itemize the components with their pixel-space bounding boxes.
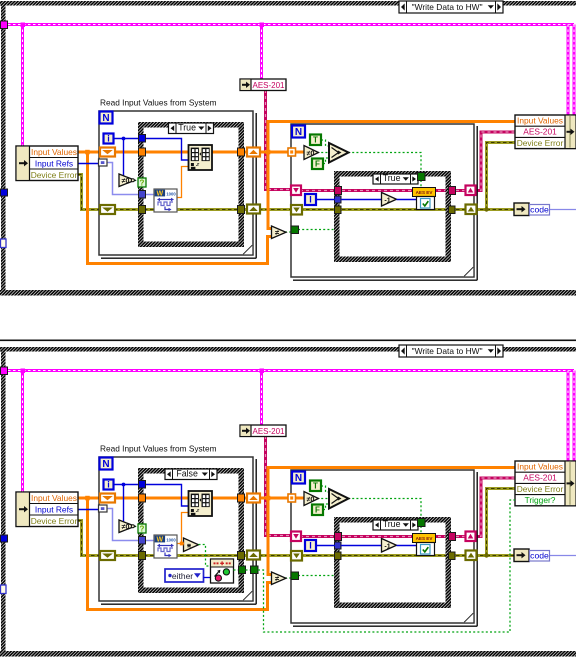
- auto-index tunnel Input Refs: [99, 159, 108, 166]
- loop tunnel olive right: [466, 205, 477, 215]
- svg-text:Read Input Values from System: Read Input Values from System: [100, 98, 217, 108]
- case tunnel blue left: [335, 542, 342, 549]
- svg-text:Device Error: Device Error: [517, 138, 564, 148]
- blue wire case interior to replace-array index input: [144, 485, 189, 507]
- magenta wire junction A: [21, 23, 26, 28]
- svg-text:I: I: [309, 195, 312, 205]
- case tunnel blue (refnum): [139, 191, 146, 199]
- orange array wire down and under left loop: [88, 152, 273, 264]
- case label True (right loop): [373, 520, 418, 530]
- case tunnel green (False case): [239, 566, 246, 574]
- green boolean wire not-equal to right loop tunnel: [285, 577, 292, 579]
- green boolean wire tunnel to AES EV subVI: [420, 526, 422, 534]
- orange wire junction at unbundle: [85, 150, 90, 155]
- shift register olive (right loop): [291, 551, 302, 561]
- not-equal-zero comparator (left loop): [119, 520, 135, 533]
- crimson wire through right loop / inner case: [300, 189, 466, 192]
- crimson VISA wire AES-201 local to shift register: [266, 90, 293, 190]
- loop tunnel right olive: [247, 205, 260, 214]
- error cluster wire unbundle to left loop: [78, 521, 100, 556]
- svg-text:≠0: ≠0: [122, 524, 130, 531]
- blue wire junction: [122, 137, 126, 141]
- magenta wire branch down to bundle node (right): [573, 371, 576, 462]
- svg-text:Trigger?: Trigger?: [525, 495, 556, 505]
- for loop (right) count terminal N: [292, 472, 305, 484]
- boolean constant T: [310, 135, 321, 146]
- case label True (left loop): [169, 123, 214, 134]
- svg-text:Read Input Values from System: Read Input Values from System: [100, 444, 217, 454]
- crimson VISA wire AES-201 local to shift register: [266, 436, 293, 536]
- svg-text:AES-201: AES-201: [523, 473, 557, 483]
- not-equal comparator between loops: [272, 226, 287, 239]
- case label True (right loop): [373, 174, 418, 184]
- case tunnel olive left: [139, 206, 146, 214]
- bundle by name node: [515, 461, 576, 506]
- svg-text:False: False: [176, 468, 198, 478]
- AES-201 local variable: [240, 425, 286, 437]
- green boolean wire tunnel to AES EV subVI: [420, 180, 422, 188]
- svg-text:N: N: [102, 459, 109, 470]
- green boolean wire around right loop to bundle Trigger?: [258, 500, 515, 632]
- case structure (right loop) hatched border: [337, 174, 449, 260]
- loop tunnel right orange: [247, 494, 260, 503]
- magenta tunnel on while loop border: [1, 21, 8, 29]
- orange array wire left loop to right loop and bundle: [259, 151, 291, 154]
- blue wire I to inner case: [316, 199, 335, 201]
- loop tunnel orange (right loop input): [288, 494, 296, 502]
- thin orange wire W subVI to replace-array element input: [177, 167, 189, 198]
- svg-text:≠0: ≠0: [307, 151, 315, 158]
- not-equal-zero comparator (right loop): [304, 492, 319, 506]
- magenta wire branch down to unbundle node: [21, 371, 24, 493]
- orange wire junction at unbundle: [85, 496, 90, 501]
- for loop (left) frame: [99, 111, 253, 255]
- svg-text:code: code: [530, 204, 549, 214]
- not-equal comparator between loops: [272, 572, 287, 585]
- numeric terminal I: [305, 540, 316, 551]
- case tunnel olive left (inner case): [335, 206, 342, 214]
- blue wire inner case to decrement: [341, 199, 382, 201]
- thin blue wire from code indicator to right edge: [548, 555, 576, 557]
- svg-text:W: W: [156, 191, 163, 198]
- W write-waveform subVI: [154, 535, 177, 558]
- select node: [329, 143, 349, 163]
- magenta wire junction B: [260, 23, 265, 28]
- green boolean wire neq0 to select: [317, 152, 329, 154]
- error wire right loop to bundle and code: [474, 143, 515, 210]
- svg-text:N: N: [295, 127, 302, 138]
- select node: [329, 489, 349, 509]
- svg-text:"Write Data to HW": "Write Data to HW": [412, 2, 483, 12]
- orange wire junction right of left loop: [266, 496, 271, 501]
- shift register left orange: [100, 494, 115, 503]
- green boolean wire T constant to select: [321, 140, 329, 146]
- shift register left olive: [100, 205, 115, 214]
- green boolean wire F constant to select: [323, 158, 329, 164]
- case tunnel crimson left: [335, 533, 342, 541]
- case tunnel olive right: [238, 206, 245, 214]
- svg-text:N: N: [295, 473, 302, 484]
- orange array wire down and under left loop: [88, 498, 273, 610]
- magenta cluster wire from left tunnel across top: [3, 23, 574, 26]
- case tunnel olive left: [139, 552, 146, 560]
- enum constant either: [165, 569, 204, 582]
- for loop (right) frame: [291, 124, 474, 277]
- loop tunnel orange (right loop input): [288, 148, 296, 156]
- loop tunnel crimson right: [466, 186, 476, 196]
- case tunnel crimson left: [335, 187, 342, 195]
- error wire junction: [484, 207, 488, 211]
- for loop (right) frame: [291, 470, 474, 623]
- thin blue wire from code indicator to right edge: [548, 209, 576, 211]
- comparator node in False case: [184, 538, 199, 552]
- not-equal-zero comparator (left loop): [119, 174, 135, 187]
- green boolean wire tunnel to inner case selector: [298, 575, 334, 577]
- case structure label "Write Data to HW": [399, 1, 503, 13]
- loop tunnel right olive: [247, 551, 260, 560]
- svg-text:T: T: [313, 482, 318, 491]
- decrement node: [382, 193, 397, 207]
- crimson wire right loop to bundle: [474, 132, 515, 191]
- case tunnel orange left: [139, 494, 146, 502]
- svg-text:Input Values: Input Values: [31, 147, 77, 157]
- svg-text:True: True: [178, 122, 196, 132]
- loop tunnel green boolean: [291, 226, 299, 234]
- case tunnel blue (i): [139, 481, 146, 489]
- unbundle by name node: [16, 146, 78, 181]
- magenta wire branch down to unbundle node: [21, 25, 24, 147]
- error wire right loop to bundle and code: [474, 489, 515, 556]
- error wire through left loop and case: [114, 554, 248, 557]
- orange array wire unbundle Input Values to left loop: [78, 151, 100, 154]
- code indicator terminal: [514, 549, 529, 562]
- svg-text:≠0: ≠0: [122, 178, 130, 185]
- green boolean wire not-equal-zero to case selector: [134, 180, 139, 182]
- orange array wire replace-array node to loop tunnel: [211, 497, 248, 500]
- shift register crimson (right loop): [291, 532, 301, 542]
- blue wire unbundle Input Refs to left loop tunnel: [78, 509, 100, 511]
- svg-text:Input Refs: Input Refs: [35, 159, 73, 169]
- svg-text:"Write Data to HW": "Write Data to HW": [412, 346, 483, 356]
- for loop (right) count terminal N: [292, 126, 305, 138]
- orange array wire inside left loop to replace-array node: [114, 151, 189, 154]
- case structure (right loop) hatched border: [337, 520, 449, 606]
- case tunnel blue (i): [139, 135, 146, 143]
- green boolean wire not-equal to right loop tunnel: [285, 231, 292, 233]
- svg-text:⋇: ⋇: [186, 544, 191, 550]
- orange array wire replace-array node to loop tunnel: [211, 151, 248, 154]
- svg-text:1000: 1000: [166, 191, 176, 196]
- for loop (left) count terminal N: [100, 112, 113, 124]
- svg-text:i: i: [107, 480, 110, 490]
- case tunnel blue (refnum): [139, 537, 146, 545]
- W write-waveform subVI: [154, 189, 177, 212]
- case tunnel olive right: [238, 552, 245, 560]
- blue tunnel on while loop border: [1, 189, 8, 196]
- shift register olive (right loop): [291, 205, 302, 215]
- orange array wire inside left loop to replace-array node: [114, 497, 189, 500]
- magenta wire branch down to AES-201 local variable: [260, 371, 263, 426]
- blue wire case interior to replace-array index input: [144, 139, 189, 161]
- thin orange wire W subVI to replace-array element input: [177, 513, 189, 544]
- case tunnel olive right (inner case): [449, 552, 456, 560]
- loop tunnel olive right: [466, 551, 477, 561]
- svg-text:AES-201: AES-201: [252, 81, 285, 90]
- case tunnel crimson right (inner case): [449, 533, 456, 541]
- svg-text:N: N: [102, 113, 109, 124]
- while loop border (bottom diagram, hatched): [0, 347, 576, 352]
- shift register left orange: [100, 148, 115, 157]
- error wire junction: [484, 553, 488, 557]
- shift register left olive: [100, 551, 115, 560]
- crimson wire through right loop / inner case: [300, 535, 466, 538]
- unbundle by name node: [16, 492, 78, 527]
- AES-201 local variable: [240, 79, 286, 91]
- boolean constant F: [312, 505, 323, 516]
- numeric terminal I: [305, 194, 316, 205]
- loop tunnel green (left loop): [251, 566, 259, 574]
- blue wire I to inner case: [316, 545, 335, 547]
- loop tunnel crimson right: [466, 532, 476, 542]
- green wire trigger subVI to case tunnel: [234, 569, 240, 571]
- case tunnel orange right: [238, 148, 245, 156]
- case tunnel green on top border: [418, 173, 426, 181]
- green boolean wire F constant to select: [323, 504, 329, 510]
- svg-text:AES EV: AES EV: [416, 190, 434, 195]
- blue tunnel on while loop border: [1, 535, 8, 542]
- error wire through right loop / inner case: [300, 208, 466, 211]
- blue wire i terminal to case tunnel and compare: [113, 138, 140, 140]
- case tunnel olive right (inner case): [449, 206, 456, 214]
- svg-text:either: either: [172, 571, 193, 581]
- svg-text:Device Error: Device Error: [517, 484, 564, 494]
- svg-text:?: ?: [140, 179, 145, 188]
- svg-text:Input Refs: Input Refs: [35, 505, 73, 515]
- svg-text:-1: -1: [384, 197, 390, 204]
- case structure label "Write Data to HW": [399, 345, 503, 357]
- svg-text:≠0: ≠0: [307, 497, 315, 504]
- svg-text:True: True: [383, 173, 401, 183]
- magenta wire branch down to bundle node (left): [567, 371, 570, 462]
- case structure (left loop) hatched border: [141, 125, 242, 245]
- case tunnel olive left (inner case): [335, 552, 342, 560]
- orange array wire unbundle Input Values to left loop: [78, 497, 100, 500]
- loop tunnel right orange: [247, 148, 260, 157]
- svg-text:F: F: [315, 506, 320, 515]
- while loop border (top diagram, hatched): [0, 1, 576, 6]
- green wire comparator to trigger subVI: [199, 545, 212, 567]
- replace array subset node: [189, 491, 213, 516]
- not-equal-zero comparator (right loop): [304, 146, 319, 160]
- svg-text:code: code: [530, 550, 549, 560]
- magenta wire junction A: [21, 369, 26, 374]
- svg-text:I: I: [309, 541, 312, 551]
- green boolean wire T constant to select: [321, 486, 329, 492]
- error wire through left loop and case: [114, 208, 248, 211]
- magenta wire branch down to bundle node (right): [573, 25, 576, 116]
- crimson wire right loop to bundle: [474, 478, 515, 537]
- svg-text:AES-201: AES-201: [523, 127, 557, 137]
- case tunnel green on top border: [418, 519, 426, 527]
- svg-text:T: T: [313, 136, 318, 145]
- bundle by name node: [515, 115, 576, 149]
- small tunnel on while loop border: [1, 239, 7, 248]
- svg-text:Device Error: Device Error: [31, 170, 78, 180]
- case selector terminal ?: [138, 178, 146, 187]
- svg-text:True: True: [383, 519, 401, 529]
- blue wire inner case to decrement: [341, 545, 382, 547]
- blue wire decrement to AES EV: [397, 545, 418, 547]
- structure edge line above bottom diagram: [0, 340, 576, 342]
- blue wire i terminal to case tunnel and compare: [113, 484, 140, 486]
- for loop (left) iteration terminal i: [104, 480, 114, 490]
- decrement node: [382, 539, 397, 553]
- AES EV subVI icon: [413, 534, 436, 543]
- blue wire unbundle Input Refs to left loop tunnel: [78, 163, 100, 165]
- for loop (left) frame: [99, 457, 253, 601]
- error wire left loop to right loop: [259, 208, 292, 211]
- svg-text:Input Values: Input Values: [517, 115, 563, 125]
- magenta cluster wire from left tunnel across top: [3, 369, 574, 372]
- orange junction at comparator: [180, 542, 184, 546]
- trigger detection subVI: [211, 559, 234, 583]
- green boolean wire not-equal-zero to case selector: [134, 526, 139, 528]
- case label False (left loop): [165, 469, 217, 480]
- green wire case to loop tunnel: [246, 569, 252, 571]
- magenta wire branch down to bundle node (left): [567, 25, 570, 116]
- orange wire junction right of left loop: [266, 150, 271, 155]
- svg-text:AES EV: AES EV: [416, 536, 434, 541]
- svg-text:AES-201: AES-201: [252, 427, 285, 436]
- svg-text:1000: 1000: [166, 537, 176, 542]
- svg-text:i: i: [107, 134, 110, 144]
- orange wire into not-equal-zero node (right loop): [294, 497, 304, 500]
- lavender refnum wire loop tunnel to W subVI: [105, 163, 155, 195]
- magenta wire junction B: [260, 369, 265, 374]
- code indicator terminal: [514, 203, 529, 216]
- case structure (left loop) hatched border: [141, 471, 242, 591]
- green boolean wire select to inner case tunnel: [348, 499, 421, 520]
- svg-text:-1: -1: [384, 543, 390, 550]
- replace array subset node: [189, 145, 213, 170]
- lavender refnum wire loop tunnel to W subVI: [105, 509, 155, 541]
- orange wire into not-equal-zero node (right loop): [294, 151, 304, 154]
- green boolean wire tunnel to inner case selector: [298, 229, 334, 231]
- error wire left loop to right loop: [259, 554, 292, 557]
- svg-text:?: ?: [140, 525, 145, 534]
- for loop (left) iteration terminal i: [104, 134, 114, 144]
- case tunnel orange left: [139, 148, 146, 156]
- svg-text:W: W: [156, 537, 163, 544]
- AES EV subVI icon: [413, 188, 436, 197]
- green boolean wire neq0 to select: [317, 498, 329, 500]
- case tunnel blue left: [335, 196, 342, 203]
- svg-text:Input Values: Input Values: [31, 493, 77, 503]
- case tunnel crimson right (inner case): [449, 187, 456, 195]
- svg-text:F: F: [315, 160, 320, 169]
- error wire through right loop / inner case: [300, 554, 466, 557]
- svg-text:Device Error: Device Error: [31, 516, 78, 526]
- case tunnel orange right: [238, 494, 245, 502]
- for loop (left) count terminal N: [100, 458, 113, 470]
- boolean constant F: [312, 159, 323, 170]
- magenta tunnel on while loop border: [1, 367, 8, 375]
- small tunnel on while loop border: [1, 585, 7, 594]
- blue wire enum to trigger subVI: [204, 577, 212, 579]
- shift register crimson (right loop): [291, 186, 301, 196]
- orange array wire left loop to right loop and bundle: [259, 497, 291, 500]
- boolean constant T: [310, 481, 321, 492]
- error cluster wire unbundle to left loop: [78, 175, 100, 210]
- blue wire junction: [122, 483, 126, 487]
- magenta wire branch down to AES-201 local variable: [260, 25, 263, 80]
- svg-text:Input Values: Input Values: [517, 461, 563, 471]
- green boolean wire select to inner case tunnel: [348, 153, 421, 174]
- case selector terminal ?: [138, 524, 146, 533]
- blue wire decrement to AES EV: [397, 199, 418, 201]
- auto-index tunnel Input Refs: [99, 505, 108, 512]
- loop tunnel green boolean: [291, 572, 299, 580]
